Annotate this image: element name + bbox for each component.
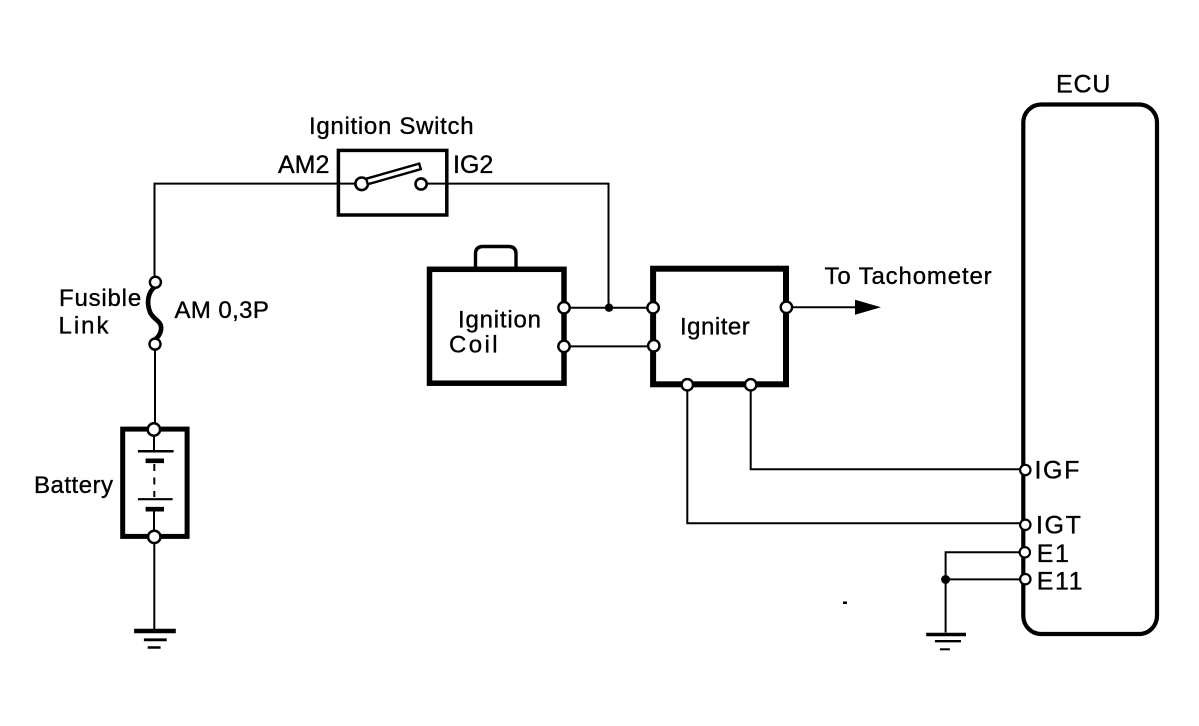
ignition switch lever (366, 164, 421, 185)
svg-text:Fusible: Fusible (59, 285, 142, 312)
svg-text:IG2: IG2 (453, 151, 493, 179)
wire coil to igniter (upper) (564, 307, 653, 309)
ECU terminal E1 (1020, 547, 1030, 557)
ignition coil terminal upper (558, 302, 569, 313)
svg-text:IGT: IGT (1036, 512, 1082, 540)
battery cell lead top (153, 435, 155, 450)
igniter terminal left upper (647, 302, 658, 313)
wire igniter to tachometer arrow (786, 306, 859, 308)
svg-text:E11: E11 (1037, 568, 1084, 596)
ignition coil top tab (476, 247, 517, 272)
svg-text:Ignition: Ignition (458, 307, 542, 334)
wire AM2 from ignition switch to fusible link (155, 184, 362, 280)
ignition switch terminal IG2 circle (416, 178, 427, 189)
tachometer arrow head (855, 300, 881, 315)
battery plate short thick bottom (146, 507, 164, 512)
svg-text:Ignition Switch: Ignition Switch (309, 113, 474, 140)
igniter terminal left lower (648, 340, 659, 351)
ground battery (134, 631, 176, 648)
battery plate short thick top (146, 458, 164, 463)
svg-text:Igniter: Igniter (680, 314, 750, 341)
wire IG2 from ignition switch down to coil/igniter node (421, 184, 609, 306)
svg-text:IGF: IGF (1035, 457, 1081, 485)
ignition coil box (430, 269, 565, 383)
battery plate long top (138, 450, 174, 453)
ignition switch box (338, 150, 446, 215)
wire ECU E1 to ground node (946, 552, 1025, 579)
battery terminal bottom circle (148, 531, 160, 543)
battery terminal top circle (148, 423, 160, 435)
svg-text:AM 0,3P: AM 0,3P (175, 297, 270, 324)
ECU terminal IGF (1020, 465, 1030, 475)
svg-text:Coil: Coil (449, 332, 500, 359)
wire coil to igniter (lower) (564, 345, 653, 347)
wire ground node down to ECU ground (945, 580, 947, 633)
fusible link top circle (150, 277, 161, 288)
battery plate long bottom (138, 498, 173, 500)
ground ECU (926, 635, 966, 650)
ignition coil terminal lower (558, 341, 569, 352)
wire battery to ground (153, 537, 155, 631)
wire igniter to ECU IGF (751, 385, 1025, 470)
ECU terminal IGT (1020, 520, 1030, 530)
stray scan speck (843, 602, 847, 605)
battery cell lead bottom (153, 511, 155, 531)
svg-text:Battery: Battery (34, 472, 114, 499)
svg-text:ECU: ECU (1056, 71, 1111, 99)
node junction E1/E11 ground (941, 575, 950, 584)
igniter terminal bottom left (IGT) (682, 379, 693, 390)
igniter box (653, 269, 786, 385)
wire fusible link to battery (154, 344, 156, 429)
svg-text:AM2: AM2 (278, 151, 329, 179)
battery box (123, 429, 187, 536)
ECU box (1023, 105, 1157, 635)
svg-text:Link: Link (59, 313, 111, 340)
node junction IG2/coil/igniter (605, 304, 613, 312)
igniter terminal right (tachometer) (781, 302, 792, 313)
battery dashed center line (153, 464, 155, 497)
ECU terminal E11 (1020, 574, 1030, 584)
svg-text:To Tachometer: To Tachometer (825, 263, 993, 290)
wire igniter to ECU IGT (687, 385, 1025, 524)
ignition switch terminal AM2 circle (355, 178, 368, 191)
fusible link symbol (148, 287, 161, 340)
wire ECU E11 to ground node (946, 578, 1025, 580)
svg-text:E1: E1 (1037, 540, 1071, 568)
fusible link bottom circle (150, 339, 161, 350)
igniter terminal bottom right (IGF) (745, 379, 756, 390)
